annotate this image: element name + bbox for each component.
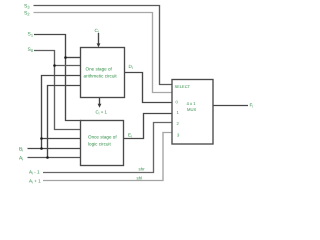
svg-text:shr: shr	[139, 167, 146, 172]
svg-text:Ei: Ei	[128, 133, 132, 139]
svg-text:S0: S0	[28, 47, 34, 53]
svg-text:Ai: Ai	[19, 156, 23, 162]
svg-text:Di: Di	[129, 64, 133, 70]
svg-text:Fi: Fi	[250, 103, 254, 109]
svg-text:Once stage of: Once stage of	[88, 134, 117, 139]
svg-text:S3: S3	[24, 4, 30, 10]
svg-text:Ai - 1: Ai - 1	[29, 170, 40, 176]
svg-text:Ai + 1: Ai + 1	[29, 179, 41, 185]
svg-text:SELECT: SELECT	[175, 84, 191, 89]
svg-text:Bi: Bi	[19, 147, 23, 153]
svg-text:arithmetic circuit: arithmetic circuit	[84, 74, 118, 79]
svg-text:S2: S2	[24, 11, 30, 17]
svg-text:Ci: Ci	[95, 28, 99, 34]
svg-text:One stage of: One stage of	[86, 67, 113, 72]
svg-text:S1: S1	[28, 32, 34, 38]
svg-text:4 x 1: 4 x 1	[187, 101, 197, 106]
svg-text:logic circuit: logic circuit	[88, 141, 111, 146]
svg-text:Ci + 1: Ci + 1	[96, 110, 108, 116]
svg-text:shl: shl	[137, 176, 143, 181]
svg-text:MUX: MUX	[187, 107, 197, 112]
